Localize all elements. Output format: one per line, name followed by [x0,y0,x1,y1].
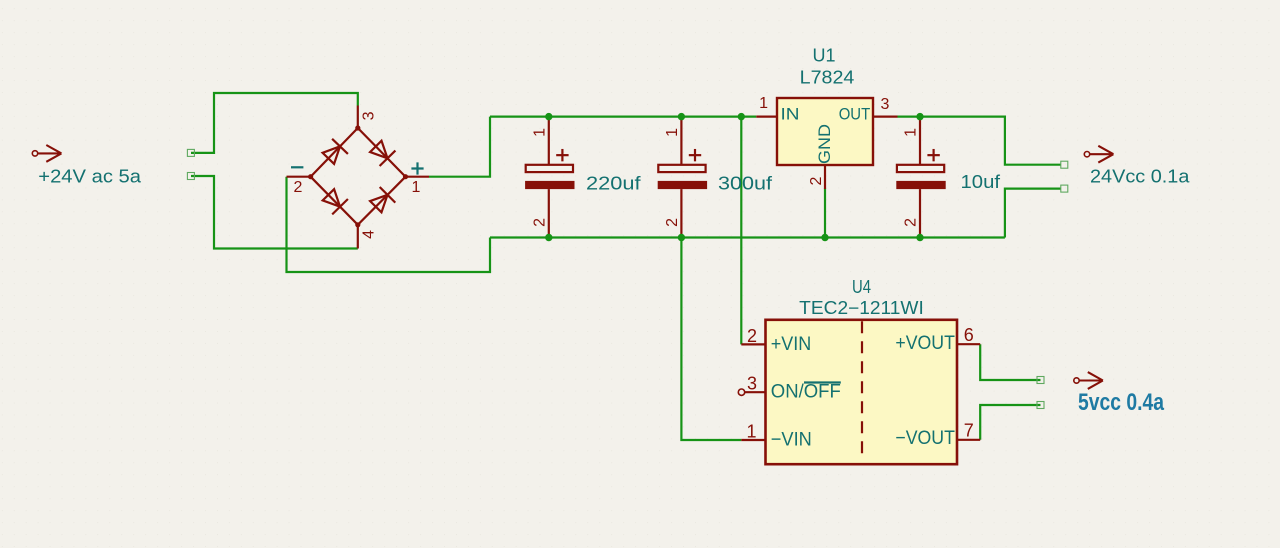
svg-text:6: 6 [964,325,974,345]
svg-text:4: 4 [360,230,377,239]
svg-text:+VIN: +VIN [771,333,812,355]
svg-text:GND: GND [815,124,834,164]
svg-text:7: 7 [964,421,974,441]
svg-text:5vcc 0.4a: 5vcc 0.4a [1078,389,1165,416]
svg-text:U1: U1 [812,46,835,66]
svg-text:−VOUT: −VOUT [895,427,955,449]
svg-text:U4: U4 [852,277,871,297]
svg-text:L7824: L7824 [800,68,855,88]
svg-text:+VOUT: +VOUT [895,332,955,354]
svg-text:220uf: 220uf [586,174,642,194]
svg-text:1: 1 [759,95,768,112]
svg-text:3: 3 [360,111,377,120]
svg-text:+24V ac 5a: +24V ac 5a [38,167,142,187]
svg-text:−VIN: −VIN [771,428,812,450]
svg-text:1: 1 [746,422,756,442]
svg-text:IN: IN [781,105,800,124]
svg-text:ON/OFF: ON/OFF [771,381,841,403]
svg-text:24Vcc 0.1a: 24Vcc 0.1a [1090,167,1190,187]
svg-text:10uf: 10uf [961,172,1002,192]
svg-text:300uf: 300uf [718,174,773,194]
svg-text:2: 2 [747,326,757,346]
svg-text:2: 2 [294,179,303,196]
svg-text:OUT: OUT [839,105,871,124]
svg-text:3: 3 [881,96,890,113]
svg-text:1: 1 [412,179,421,196]
svg-text:3: 3 [747,374,757,394]
svg-text:2: 2 [808,177,825,186]
svg-text:TEC2−1211WI: TEC2−1211WI [799,298,924,318]
